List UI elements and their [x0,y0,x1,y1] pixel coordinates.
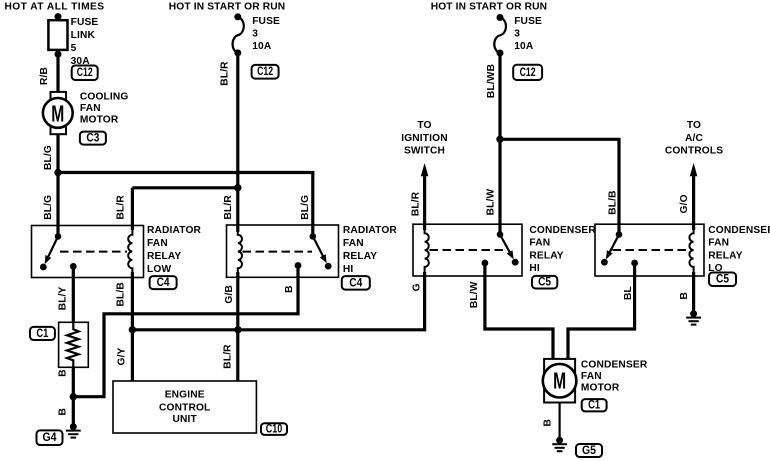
svg-text:RELAY: RELAY [529,250,563,261]
svg-text:HOT IN START OR RUN: HOT IN START OR RUN [169,2,285,13]
svg-text:LINK: LINK [71,30,96,41]
svg-text:10A: 10A [514,41,534,52]
svg-text:C4: C4 [157,277,171,289]
svg-text:C4: C4 [349,277,363,289]
svg-text:BL/G: BL/G [43,195,54,220]
svg-text:C1: C1 [588,400,600,412]
svg-text:BL/W: BL/W [469,281,480,308]
svg-text:FAN: FAN [80,103,101,114]
svg-text:B: B [58,369,69,377]
svg-text:FAN: FAN [343,238,364,249]
svg-text:MOTOR: MOTOR [80,115,119,126]
svg-text:BL/W: BL/W [486,189,497,216]
svg-text:SWITCH: SWITCH [404,146,445,157]
svg-text:CONDENSER: CONDENSER [529,225,596,236]
svg-text:BL/G: BL/G [43,145,54,170]
svg-text:LO: LO [708,263,722,274]
svg-text:G/O: G/O [679,194,690,213]
svg-text:G/Y: G/Y [117,347,128,365]
svg-text:G: G [411,283,422,291]
svg-text:5: 5 [71,43,77,54]
svg-text:FUSE: FUSE [71,17,99,28]
svg-text:HI: HI [343,264,354,275]
svg-text:B: B [284,285,295,293]
svg-text:COOLING: COOLING [80,92,129,103]
svg-text:BL/R: BL/R [115,195,126,220]
svg-text:BL/R: BL/R [223,344,234,369]
svg-text:BL/Y: BL/Y [57,286,68,310]
svg-text:C5: C5 [538,277,552,289]
svg-text:FAN: FAN [529,238,550,249]
svg-text:HOT IN START OR RUN: HOT IN START OR RUN [431,2,547,13]
svg-text:A/C: A/C [685,133,703,144]
svg-text:BL/R: BL/R [220,61,231,86]
svg-text:CONTROL: CONTROL [159,402,210,413]
svg-text:BL: BL [623,286,634,300]
svg-text:RELAY: RELAY [147,251,181,262]
svg-text:RADIATOR: RADIATOR [147,225,202,236]
svg-text:HI: HI [529,263,540,274]
svg-text:RADIATOR: RADIATOR [343,225,398,236]
svg-text:G/B: G/B [224,285,235,304]
svg-text:C5: C5 [716,274,730,286]
svg-text:ENGINE: ENGINE [165,389,205,400]
svg-text:FAN: FAN [147,238,168,249]
svg-text:TO: TO [417,120,431,131]
svg-text:G5: G5 [582,445,597,457]
svg-text:RELAY: RELAY [708,250,742,261]
svg-text:B: B [679,292,690,300]
svg-text:C10: C10 [266,423,283,435]
svg-text:30A: 30A [71,56,91,67]
svg-text:BL/R: BL/R [223,195,234,220]
svg-text:R/B: R/B [39,67,50,85]
svg-text:FUSE: FUSE [514,16,542,27]
svg-text:10A: 10A [252,41,272,52]
svg-text:RELAY: RELAY [343,251,377,262]
svg-text:IGNITION: IGNITION [401,133,447,144]
svg-text:BL/B: BL/B [608,190,619,214]
svg-text:3: 3 [514,29,520,40]
svg-text:C1: C1 [36,328,48,340]
svg-text:CONTROLS: CONTROLS [665,146,723,157]
svg-text:C3: C3 [86,133,99,145]
svg-text:CONDENSER: CONDENSER [708,225,770,236]
svg-text:FAN: FAN [581,371,602,382]
svg-text:BL/R: BL/R [411,191,422,216]
svg-text:LOW: LOW [147,264,171,275]
svg-text:G4: G4 [43,432,58,444]
svg-text:3: 3 [252,29,258,40]
svg-text:BL/B: BL/B [115,282,126,306]
svg-text:B: B [543,419,554,427]
svg-text:FAN: FAN [708,238,729,249]
svg-text:CONDENSER: CONDENSER [581,360,648,371]
svg-text:B: B [58,408,69,416]
svg-text:TO: TO [687,120,701,131]
svg-text:C12: C12 [257,66,273,78]
svg-text:C12: C12 [520,67,536,79]
svg-text:UNIT: UNIT [173,414,198,425]
svg-text:BL/WB: BL/WB [486,64,497,98]
svg-text:FUSE: FUSE [252,16,280,27]
svg-text:BL/G: BL/G [300,195,311,220]
svg-text:M: M [51,100,64,126]
svg-text:HOT AT ALL TIMES: HOT AT ALL TIMES [5,2,105,13]
svg-text:C12: C12 [77,67,93,79]
svg-text:M: M [553,368,566,394]
svg-text:MOTOR: MOTOR [581,382,620,393]
